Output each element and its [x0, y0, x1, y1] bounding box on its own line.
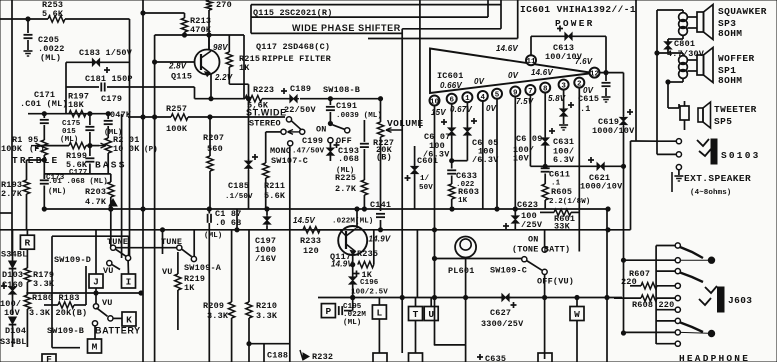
node r213 rail	[141, 11, 145, 15]
node wiper mid	[88, 144, 92, 148]
pin 12	[590, 68, 600, 78]
box terminal R	[26, 230, 28, 235]
plus C623	[503, 225, 509, 227]
svg-text:D103: D103	[2, 270, 23, 280]
svg-text:(ML): (ML)	[40, 53, 61, 63]
ground below C205	[24, 50, 33, 52]
wire bus C y297	[318, 297, 622, 299]
svg-text:RIPPLE FILTER: RIPPLE FILTER	[262, 54, 332, 64]
wire bus B y229.8	[0, 229, 631, 231]
svg-text:100/2.5V: 100/2.5V	[351, 289, 388, 297]
svg-text:1/: 1/	[420, 175, 430, 183]
svg-text:C195: C195	[343, 303, 362, 311]
node y293 a	[94, 291, 98, 295]
svg-text:R235: R235	[357, 249, 378, 259]
switch contact mono	[288, 141, 293, 146]
jack J603 c4	[675, 283, 680, 288]
wire bus y117	[128, 116, 171, 118]
node base tap	[153, 60, 157, 64]
svg-text:C615: C615	[578, 94, 599, 104]
wire rail x50 bottom	[52, 347, 80, 349]
svg-text:220: 220	[621, 277, 637, 287]
svg-text:3.3K: 3.3K	[33, 279, 55, 289]
wire c193 down	[363, 149, 365, 180]
node R213 bottom	[182, 33, 186, 37]
box terminal J	[95, 230, 97, 274]
capacitor C615 .1	[605, 73, 607, 81]
jack J603 c9	[656, 343, 675, 345]
pin 9	[510, 87, 520, 97]
svg-text:R209: R209	[203, 301, 224, 311]
capacitor C609 100/10V	[542, 138, 549, 145]
wire top horizontal	[0, 18, 48, 20]
wire left rail	[11, 0, 13, 256]
node A2	[141, 207, 145, 211]
capacitor C611 .1	[541, 167, 550, 169]
wire woofer top	[657, 52, 683, 54]
wire power down	[605, 36, 607, 72]
svg-text:SW109-C: SW109-C	[490, 266, 527, 276]
wire rail x86	[85, 266, 87, 305]
capacitor C175	[89, 114, 91, 125]
resistor R219 1K	[177, 252, 179, 274]
svg-text:0V: 0V	[474, 77, 485, 86]
plus C189	[281, 90, 287, 92]
jack S0103 contact1	[656, 140, 676, 142]
svg-text:100K: 100K	[1, 144, 23, 154]
capacitor C613 100/10V	[565, 33, 572, 40]
diode D103	[12, 230, 14, 261]
switch sw109b contact2	[92, 321, 97, 326]
resistor R601 33K	[540, 211, 554, 213]
box terminal U	[430, 298, 432, 307]
jack J603 c6	[656, 309, 675, 311]
svg-text:TUNE: TUNE	[161, 237, 182, 247]
jack J603 c1	[656, 245, 675, 247]
svg-text:SW109-B: SW109-B	[47, 326, 84, 336]
svg-text:MONO: MONO	[270, 146, 291, 156]
capacitor C631 pin3	[560, 109, 567, 116]
node emitter bus2	[351, 295, 355, 299]
wire pin8 column	[544, 92, 546, 137]
box bottom 3	[538, 353, 552, 362]
capacitor C177	[89, 146, 91, 156]
wire c187 col down	[208, 230, 210, 362]
node R203 bus	[109, 207, 113, 211]
transistor Q117	[338, 226, 367, 255]
svg-text:POWER: POWER	[555, 18, 595, 29]
tweeter feed	[668, 107, 679, 109]
coil squawker	[679, 13, 688, 22]
arm arrow	[288, 131, 300, 133]
diode D104	[9, 317, 17, 324]
capacitor C601 1/50V	[414, 146, 416, 166]
svg-text:C635: C635	[485, 354, 506, 362]
box terminal T	[415, 298, 417, 307]
ground pin3	[559, 124, 568, 126]
wire tune1 drop	[110, 209, 112, 247]
wire C181 branch	[66, 86, 99, 88]
svg-text:0V: 0V	[486, 104, 497, 113]
wire squawker bottom	[682, 35, 684, 39]
svg-text:J603: J603	[728, 295, 752, 306]
capacitor C187 .068	[208, 209, 210, 214]
svg-text:15V: 15V	[431, 108, 446, 117]
svg-text:C199: C199	[302, 136, 323, 146]
box terminal P	[321, 304, 335, 318]
svg-text:T: T	[413, 309, 419, 320]
capacitor C191 .0039	[329, 99, 331, 105]
plus C635	[477, 356, 483, 358]
node C sw	[543, 295, 547, 299]
wire pin3 column	[563, 89, 565, 108]
wire c199 tail	[329, 156, 331, 161]
wire C205 stub	[27, 19, 29, 33]
svg-text:14.6V: 14.6V	[496, 44, 518, 53]
svg-text:.1/50V: .1/50V	[225, 193, 253, 201]
svg-text:M: M	[92, 341, 98, 352]
svg-text:C189: C189	[290, 84, 311, 94]
capacitor C607 100/6.3V	[448, 128, 455, 135]
pin 10	[430, 96, 440, 106]
resistor R235 1K	[358, 261, 374, 267]
switch SW109-C pivot	[522, 257, 527, 262]
node pin12 out	[604, 71, 608, 75]
wire bus top3	[402, 28, 501, 30]
node R193 tap	[42, 158, 46, 162]
capacitor C627 3300/25V	[502, 294, 509, 301]
capacitor C197 1000/16V	[266, 209, 268, 215]
wire rail x162 down	[162, 230, 164, 254]
diode mark at R203 bus	[109, 199, 117, 206]
capacitor C179	[107, 114, 109, 119]
svg-text:1K: 1K	[184, 283, 195, 293]
resistor R207 560	[209, 117, 211, 156]
wire pin11 up	[530, 36, 532, 55]
capacitor C181	[100, 83, 102, 92]
wire bus A y209	[44, 208, 608, 210]
svg-text:14.6V: 14.6V	[531, 68, 553, 77]
svg-text:C633: C633	[456, 171, 477, 181]
resistor R210 3.3K	[248, 230, 250, 302]
capacitor C195 .022M	[338, 306, 340, 315]
switch SW108-B stereo contact	[286, 117, 291, 122]
svg-text:PL601: PL601	[448, 266, 475, 276]
wire R213 top	[143, 12, 185, 14]
resistor R605 2.2	[542, 184, 548, 200]
node C w	[575, 295, 579, 299]
svg-text:ON: ON	[316, 125, 327, 135]
wire pin5 column	[496, 98, 498, 209]
wire pl601 col down	[465, 259, 467, 345]
svg-text:14.9V: 14.9V	[331, 260, 353, 269]
node C q117	[351, 295, 355, 299]
svg-text:R223: R223	[253, 85, 274, 95]
wire woofer drop	[667, 82, 669, 108]
node A4b	[362, 207, 366, 211]
wire tone top bus	[28, 113, 110, 115]
svg-text:S0103: S0103	[721, 150, 761, 161]
wire j603 rail x656	[655, 246, 657, 345]
wire rail x244	[243, 35, 245, 99]
node C179 top	[106, 112, 110, 116]
plus C199	[334, 144, 340, 146]
wire rail x289	[289, 147, 291, 362]
svg-text:5.6K: 5.6K	[264, 191, 286, 201]
svg-text:R207: R207	[203, 133, 224, 143]
wire ext box	[671, 172, 673, 192]
capacitor C171	[43, 114, 45, 118]
svg-text:18K: 18K	[68, 100, 85, 110]
wire x636 link	[631, 140, 658, 142]
node volume top	[378, 97, 382, 101]
resistor R209 3.3K	[231, 230, 233, 302]
pin 1	[462, 92, 472, 102]
node on pivot	[328, 121, 332, 125]
pin 6	[447, 94, 457, 104]
wire squawker top	[657, 9, 683, 11]
capacitor C621 1000/10V	[597, 163, 604, 170]
capacitor tweeter	[680, 106, 689, 120]
wire wiper link	[41, 145, 69, 147]
svg-text:.0039 (ML): .0039 (ML)	[336, 112, 382, 120]
plus C601	[405, 177, 411, 179]
node C171 top	[42, 112, 46, 116]
svg-text:C196: C196	[360, 279, 379, 287]
wire pin9 column	[514, 96, 516, 215]
node c188	[247, 342, 251, 346]
node woofer tap	[666, 80, 670, 84]
capacitor C141	[376, 213, 385, 215]
svg-text:C185: C185	[228, 181, 249, 191]
svg-text:R211: R211	[264, 181, 285, 191]
capacitor C619 1000/10V	[620, 117, 627, 124]
wire rail x417	[416, 230, 418, 298]
wire rail x129	[129, 19, 131, 258]
wire bus top2	[251, 16, 488, 18]
svg-text:C611: C611	[549, 170, 570, 180]
resistor R215 1K	[228, 35, 230, 52]
svg-text:R232: R232	[312, 352, 333, 362]
svg-text:0.66V: 0.66V	[440, 81, 462, 90]
svg-text:5.6K: 5.6K	[42, 9, 64, 19]
resistor R197	[69, 111, 86, 117]
node c185 bus	[246, 97, 250, 101]
svg-text:4.7K: 4.7K	[85, 197, 107, 207]
svg-text:(ML): (ML)	[48, 188, 66, 196]
wire C183 branch	[66, 61, 92, 63]
svg-text:1000/10V: 1000/10V	[592, 126, 635, 136]
capacitor C185 .1/50V	[248, 84, 250, 160]
svg-text:8OHM: 8OHM	[718, 28, 742, 39]
wire shifter box bottom	[251, 32, 402, 34]
node C205 top	[26, 17, 30, 21]
diode R232 mark	[303, 353, 309, 360]
svg-text:K: K	[126, 314, 132, 325]
resistor R253	[48, 16, 65, 22]
svg-text:/6.3V: /6.3V	[472, 155, 499, 165]
node rail237	[235, 228, 239, 232]
wire pin10 column	[434, 105, 436, 345]
svg-text:/25V: /25V	[521, 220, 543, 230]
node C621 rail	[621, 164, 625, 168]
node pin8 junc	[543, 164, 547, 168]
svg-text:R608 220: R608 220	[632, 300, 674, 310]
wire M stub	[94, 326, 96, 339]
svg-text:BATTERY: BATTERY	[95, 326, 141, 336]
svg-text:ST.WIDE: ST.WIDE	[246, 108, 287, 118]
plus C621	[588, 159, 594, 161]
pin 2	[574, 78, 584, 88]
svg-text:ON: ON	[528, 235, 539, 245]
wire sp1 taps	[687, 59, 697, 61]
svg-text:C631: C631	[553, 137, 574, 147]
wire sp3 taps	[687, 16, 697, 18]
svg-text:I: I	[126, 276, 132, 287]
potentiometer R195 TREBLE	[41, 140, 47, 155]
wire b to speakers	[630, 141, 632, 230]
svg-text:R605: R605	[551, 187, 572, 197]
switch tune1	[111, 245, 116, 250]
svg-text:R180 R183: R180 R183	[32, 293, 80, 303]
svg-text:SQUAWKER: SQUAWKER	[718, 6, 767, 17]
svg-text:VU: VU	[103, 266, 114, 276]
wire shifter drop	[401, 29, 403, 353]
wire c141 col	[380, 204, 382, 211]
node c801 bot	[655, 51, 659, 55]
wire rail x154	[154, 35, 156, 362]
svg-text:VU: VU	[162, 267, 173, 277]
svg-text:(B): (B)	[376, 153, 392, 163]
svg-text:C181 150P: C181 150P	[85, 74, 133, 84]
pin 7	[525, 85, 535, 95]
capacitor C160	[9, 287, 16, 294]
node pin9 busA	[513, 207, 517, 211]
svg-text:WOFFER: WOFFER	[718, 53, 755, 64]
svg-text:C177: C177	[69, 169, 87, 177]
svg-text:R210: R210	[256, 301, 277, 311]
wire pin1 to pin6	[452, 160, 468, 162]
plus C607	[441, 121, 447, 123]
wire q115 base feed	[155, 61, 194, 63]
node C191 top	[328, 97, 332, 101]
wire sw109d frame	[52, 235, 129, 237]
wire POWER rail	[531, 35, 606, 37]
wire left drop x607	[606, 209, 608, 362]
box terminal M	[88, 339, 102, 353]
resistor R211 5.6K	[263, 163, 269, 178]
resistor R203	[110, 174, 112, 182]
plus C185	[252, 156, 258, 158]
wire pin4 column	[482, 101, 484, 209]
wire rail x121	[121, 114, 123, 258]
svg-text:C175: C175	[62, 120, 81, 128]
svg-text:100/10V: 100/10V	[545, 52, 583, 62]
wire c188 link	[248, 344, 250, 362]
jack J603 springs	[705, 286, 717, 293]
node c633 top	[450, 159, 454, 163]
jack J603 c2	[624, 259, 676, 261]
svg-text:.068: .068	[338, 154, 359, 164]
plus C631a	[568, 104, 574, 106]
svg-text:C160: C160	[2, 280, 23, 290]
node bus117 b	[153, 115, 157, 119]
resistor R199	[69, 142, 86, 148]
svg-text:VOLUME: VOLUME	[387, 118, 424, 129]
svg-text:98V: 98V	[213, 43, 228, 52]
box terminal L	[378, 298, 380, 306]
wire bus y98	[195, 98, 246, 100]
svg-text:W: W	[574, 309, 580, 320]
svg-text:100K: 100K	[166, 124, 188, 134]
wire pin2 column	[578, 87, 580, 251]
resistor R603 1K	[449, 184, 455, 199]
wire left stub y213	[0, 212, 12, 214]
box bottom 2	[409, 353, 423, 362]
wire rail x194	[193, 230, 195, 257]
jack S0103 body	[711, 139, 717, 164]
plus C160	[1, 285, 7, 287]
wire sw107 arm link	[266, 131, 281, 133]
svg-text:2.7K: 2.7K	[335, 184, 357, 194]
svg-text:R603: R603	[458, 187, 479, 197]
node emitter r235	[351, 263, 355, 267]
capacitor C199 .47/50V	[327, 148, 334, 155]
svg-text:IC601 VHIHA1392//-1: IC601 VHIHA1392//-1	[520, 4, 636, 15]
wire woofer bottom	[682, 78, 684, 82]
wire sw109c off drop	[544, 275, 546, 360]
svg-text:(P): (P)	[144, 146, 158, 154]
switch contact on	[281, 129, 286, 134]
resistor R608 220	[614, 297, 641, 299]
node c627 right	[605, 295, 609, 299]
wire q117 collector	[356, 209, 358, 229]
switch contact off	[328, 138, 333, 143]
svg-text:015: 015	[62, 128, 76, 136]
svg-text:0.67V: 0.67V	[450, 105, 472, 114]
resistor R179 3.3K	[24, 268, 30, 282]
node B3	[606, 228, 610, 232]
svg-text:Q115: Q115	[171, 72, 192, 82]
node A4	[265, 207, 269, 211]
wire c635 stub	[465, 345, 467, 362]
box terminal I	[122, 274, 136, 288]
wiper arrow R195	[31, 145, 41, 147]
jack J603 c5	[675, 296, 680, 301]
svg-text:SW109-D: SW109-D	[54, 255, 91, 265]
svg-text:C623: C623	[517, 200, 538, 210]
svg-text:33K: 33K	[554, 222, 571, 232]
node pl601 left	[432, 256, 436, 260]
jack S0103 gnd contact	[676, 165, 681, 170]
svg-text:.47/50V: .47/50V	[292, 148, 325, 156]
svg-text:D104: D104	[5, 326, 26, 336]
speaker SP3	[697, 12, 704, 32]
svg-text:10 0K: 10 0K	[113, 144, 140, 154]
capacitor C633 .022	[447, 169, 456, 171]
pin 4	[478, 91, 488, 101]
node B2	[432, 228, 436, 232]
svg-text:STEREO: STEREO	[249, 119, 281, 129]
node C pl	[432, 295, 436, 299]
svg-text:SW109-A: SW109-A	[184, 263, 222, 273]
capacitor C189 22/50V	[290, 95, 297, 102]
wire c188 drop	[263, 344, 265, 362]
node x623 a	[621, 258, 625, 262]
wire pin1 column	[466, 102, 468, 127]
node bus117 a	[141, 115, 145, 119]
svg-text:S34BL: S34BL	[1, 250, 28, 260]
